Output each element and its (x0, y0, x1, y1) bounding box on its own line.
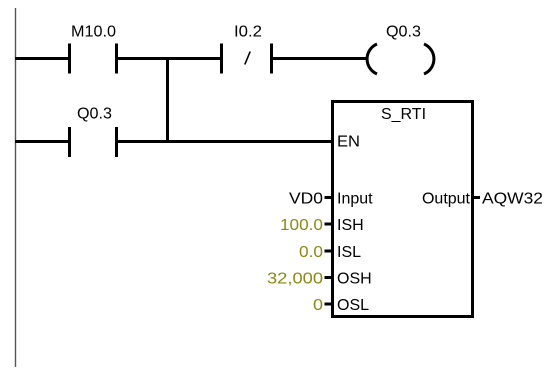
svg-text:EN: EN (337, 134, 360, 151)
pin Output, value AQW32 (422, 191, 543, 208)
svg-text:Output: Output (422, 191, 471, 208)
svg-text:0: 0 (313, 297, 323, 314)
svg-text:100.0: 100.0 (280, 217, 323, 234)
svg-text:32,000: 32,000 (267, 271, 323, 288)
pin OSH, value 32,000 (267, 271, 372, 288)
left power rail (15, 8, 17, 367)
svg-text:Input: Input (337, 191, 373, 208)
svg-text:Q0.3: Q0.3 (386, 24, 421, 41)
wire Q0.3 to box EN (117, 140, 333, 143)
wire M10.0 to I0.2 (117, 57, 222, 60)
svg-text:AQW32: AQW32 (482, 191, 543, 208)
contact I0.2 (NC) (222, 24, 272, 74)
svg-text:Q0.3: Q0.3 (77, 106, 112, 123)
contact Q0.3 (70, 106, 117, 158)
svg-text:VD0: VD0 (289, 191, 323, 208)
svg-text:I0.2: I0.2 (234, 24, 262, 41)
wire I0.2 to coil (272, 57, 369, 60)
svg-text:OSL: OSL (337, 297, 369, 314)
svg-text:0.0: 0.0 (299, 244, 323, 261)
pin Input, value VD0 (289, 191, 373, 208)
svg-text:M10.0: M10.0 (71, 24, 116, 41)
contact M10.0 (70, 24, 117, 74)
svg-text:ISH: ISH (337, 217, 364, 234)
svg-text:S_RTI: S_RTI (381, 106, 426, 123)
coil Q0.3 (367, 24, 434, 75)
pin ISL, value 0.0 (299, 244, 361, 261)
wire rung1 rail to M10.0 (15, 57, 70, 60)
svg-text:OSH: OSH (337, 271, 372, 288)
svg-text:ISL: ISL (337, 244, 361, 261)
pin OSL, value 0 (313, 297, 369, 314)
branch vertical wire (166, 57, 169, 143)
pin ISH, value 100.0 (280, 217, 364, 234)
function block S_RTI (333, 102, 473, 317)
wire rung2 rail to Q0.3 (15, 140, 70, 143)
